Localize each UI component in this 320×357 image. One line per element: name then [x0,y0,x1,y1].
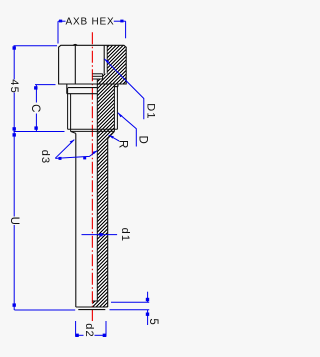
dimension U line [13,132,15,311]
dimension C line [35,85,37,132]
bore bottom [92,300,97,302]
dimension 5 line [147,292,149,303]
svg-text:D1: D1 [144,103,156,119]
extension line thread end [14,131,65,133]
svg-text:d3: d3 [39,150,51,165]
dimension AXB HEX [58,21,126,43]
centerline [91,32,93,321]
svg-text:D: D [137,135,149,143]
counterbore thread inner line [106,45,108,74]
thread crest and root lines [68,87,118,132]
dimension 45 line [13,46,15,132]
leader d3 to stem wall [55,140,74,159]
taper transition outline [71,131,115,138]
leader d1 [82,234,118,236]
leader D [118,113,137,147]
hex facet chamfer bump [73,43,77,46]
stem walls [76,133,108,309]
tip chamfer line [78,309,105,311]
dimension 5 extension lines [111,301,149,303]
svg-text:d1: d1 [119,228,131,243]
counterbore bottom step lines [92,74,102,79]
leader R [109,135,120,141]
d3 leader dots [59,157,62,160]
dimension d2 extension lines [75,321,77,337]
thread end lines [68,128,118,130]
extension line head top [14,45,58,47]
svg-text:AXB HEX: AXB HEX [66,16,115,27]
extension line hex bottom [35,84,56,86]
section hatch (head, neck, thread, taper, stem, tip) [0,30,320,310]
bore wall [96,79,98,301]
svg-text:d2: d2 [83,323,95,338]
svg-text:R: R [117,140,129,148]
svg-text:U: U [8,217,20,225]
leader d3 to bore wall [55,151,97,159]
leader D1 [104,59,144,120]
dimension d2 line [76,334,84,336]
tip bottom edge [76,306,108,308]
hex head outline [59,45,127,84]
neck below hex [67,84,118,94]
svg-text:5: 5 [147,318,159,324]
head counterbore wall D1 [103,45,105,74]
svg-text:C: C [29,104,41,112]
svg-text:45: 45 [8,79,20,94]
extension line tip bottom [14,309,75,311]
hex facet line [74,46,76,84]
